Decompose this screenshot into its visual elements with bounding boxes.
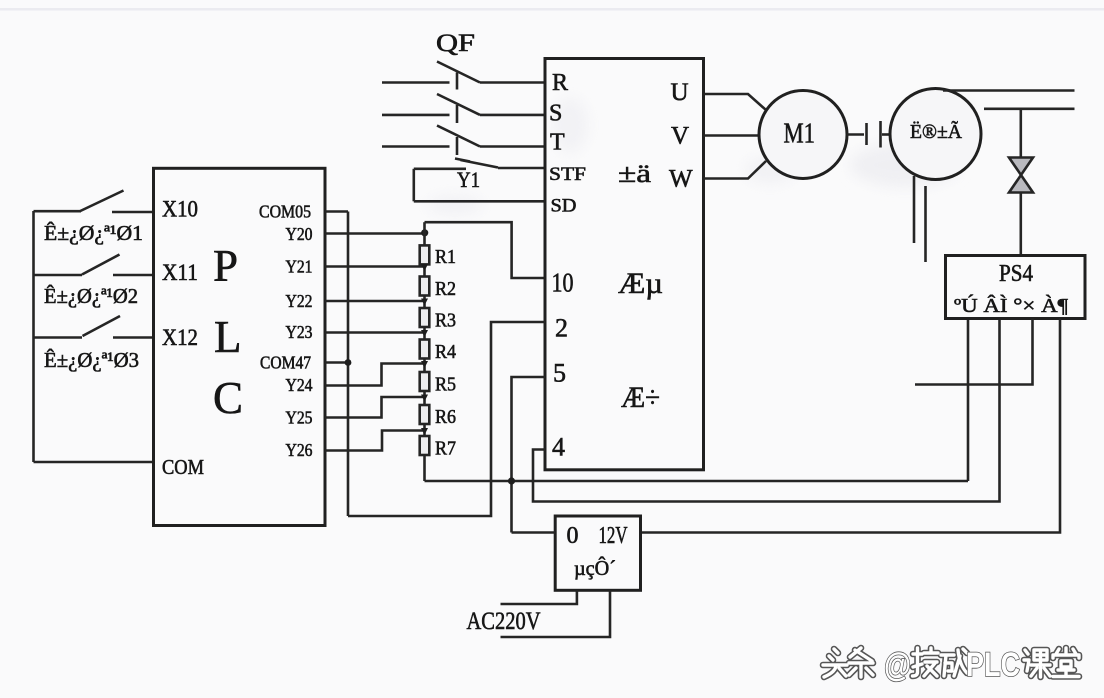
switch S1 left wire: [34, 210, 82, 213]
svg-text:COM: COM: [162, 455, 204, 479]
svg-text:L: L: [214, 312, 242, 362]
Y1 loop top wire: [414, 168, 466, 171]
pipe upper: [943, 89, 1075, 92]
QF link tick T: [456, 137, 459, 155]
svg-text:S: S: [549, 101, 562, 127]
power supply box: [555, 516, 640, 590]
svg-text:X11: X11: [162, 260, 198, 285]
switch S2 blade: [82, 255, 120, 275]
svg-text:Ê±¿Ø¿ª¹Ø3: Ê±¿Ø¿ª¹Ø3: [44, 348, 139, 372]
wire COM05 out: [325, 210, 348, 213]
svg-text:X10: X10: [162, 197, 198, 222]
wm char tang: [1053, 648, 1079, 677]
svg-text:12V: 12V: [599, 523, 628, 549]
wire Y25 step: [325, 397, 425, 418]
PS4 wire 4 to 12V: [641, 319, 1061, 533]
coupling right stub: [882, 133, 891, 136]
svg-text:Y22: Y22: [286, 291, 313, 311]
svg-text:10: 10: [552, 268, 574, 298]
svg-text:Y26: Y26: [286, 440, 313, 460]
svg-text:R6: R6: [435, 406, 456, 428]
wm char cheng: [941, 649, 967, 676]
resistor R6: [420, 405, 430, 424]
switch S3 right wire to X12: [113, 336, 154, 339]
svg-text:±ä: ±ä: [618, 159, 652, 188]
coupling left stub: [847, 133, 864, 136]
pipe drop to valve: [1019, 109, 1022, 158]
wire Y24 step: [325, 364, 425, 386]
wire 0 terminal: [512, 531, 556, 534]
svg-text:COM05: COM05: [259, 202, 311, 222]
svg-text:Æ÷: Æ÷: [621, 381, 660, 414]
svg-text:PLC: PLC: [966, 646, 1020, 684]
wire Y26 step: [325, 431, 425, 451]
node R2/R3: [421, 299, 428, 306]
svg-text:Y25: Y25: [286, 408, 313, 428]
wire chain top to terminal 10: [425, 222, 546, 278]
switch S1 blade: [80, 191, 123, 212]
Y1 fixed contact tick: [455, 159, 470, 162]
wm char tou: [823, 649, 847, 677]
valve lower triangle: [1009, 175, 1033, 193]
svg-text:@: @: [884, 646, 911, 683]
resistor chain top segment: [423, 222, 426, 245]
QF pole S left wire: [382, 114, 450, 117]
valve upper triangle: [1009, 158, 1033, 176]
wire Y22: [325, 300, 425, 303]
wire terminal 2 run: [348, 322, 545, 516]
QF pole T left wire: [382, 145, 450, 148]
svg-text:P: P: [213, 241, 238, 291]
faint scan line at top: [0, 8, 1104, 11]
coupling bar 1: [865, 123, 868, 145]
inverter box U2: [545, 59, 704, 470]
node R1/R2: [421, 264, 428, 271]
wire COM05/COM47 vertical run: [347, 212, 350, 517]
svg-text:µçÔ´: µçÔ´: [574, 556, 616, 580]
pipe valve to PS4: [1019, 193, 1022, 256]
wire Y20 to resistor chain: [325, 232, 425, 235]
svg-text:R: R: [552, 70, 568, 96]
pump inlet stub 2: [924, 186, 927, 262]
wire Y23: [325, 331, 425, 334]
bottom bus wire A: [425, 480, 969, 483]
svg-text:C: C: [213, 373, 243, 423]
svg-text:V: V: [671, 123, 689, 150]
svg-text:Y1: Y1: [457, 167, 480, 192]
resistor R7: [420, 436, 430, 455]
wire Y21: [325, 265, 425, 268]
junction Y20 node: [421, 229, 428, 236]
switch S1 right wire to X10: [112, 211, 154, 214]
svg-text:M1: M1: [784, 118, 816, 150]
resistor R4: [420, 340, 430, 359]
resistor R1: [420, 245, 430, 264]
wire PS4 to bus A: [967, 319, 970, 482]
wire terminal 5 run: [512, 377, 546, 533]
resistor R5: [420, 372, 430, 391]
QF pole S right wire: [480, 114, 545, 117]
svg-text:T: T: [550, 130, 565, 156]
svg-text:COM47: COM47: [260, 353, 311, 373]
motor M1 circle: [759, 91, 847, 179]
PS4 box: [946, 256, 1086, 319]
resistor R2: [420, 277, 430, 296]
switch S3 left wire: [34, 336, 83, 339]
svg-text:SD: SD: [551, 196, 577, 217]
wire V to motor: [704, 134, 760, 137]
PLC box U1: [154, 168, 326, 525]
svg-text:R1: R1: [435, 246, 456, 268]
pump circle: [890, 89, 981, 180]
svg-text:Æµ: Æµ: [618, 267, 663, 300]
svg-text:R2: R2: [435, 278, 456, 300]
pipe lower: [984, 108, 1075, 111]
wire W to motor: [704, 161, 767, 179]
Y1 contact STF wire: [498, 167, 545, 170]
left common bus wire: [32, 211, 35, 462]
QF pole T blade: [437, 126, 480, 147]
switch S3 blade: [83, 316, 121, 336]
QF pole S blade: [437, 94, 480, 115]
svg-text:ºÚ ÂÌ °× À¶: ºÚ ÂÌ °× À¶: [954, 293, 1068, 317]
Y1 contact blade: [461, 160, 499, 168]
node R6/R7: [421, 428, 428, 435]
QF link tick S: [456, 105, 459, 123]
COM wire to PLC: [34, 461, 154, 464]
QF pole R right wire: [480, 81, 545, 84]
wm char ji: [913, 648, 939, 676]
svg-text:4: 4: [552, 433, 565, 462]
switch S2 right wire to X11: [113, 274, 154, 277]
QF pole R blade: [437, 62, 480, 83]
AC wire 1: [501, 590, 577, 604]
svg-text:Y24: Y24: [286, 375, 313, 395]
node R5/R6: [421, 395, 428, 402]
coupling bar 2: [879, 121, 882, 148]
junction bus A: [508, 477, 515, 484]
svg-text:PS4: PS4: [999, 261, 1033, 287]
svg-text:Y21: Y21: [286, 257, 313, 277]
QF pole R left wire: [382, 81, 450, 84]
svg-text:AC220V: AC220V: [467, 608, 541, 635]
pump inlet stub 1: [913, 176, 916, 243]
node R3/R4: [421, 330, 428, 337]
svg-text:R5: R5: [435, 374, 456, 396]
wire U to motor: [704, 94, 767, 110]
svg-text:R3: R3: [435, 310, 456, 332]
svg-text:R7: R7: [435, 438, 456, 460]
svg-text:QF: QF: [436, 30, 475, 57]
svg-text:STF: STF: [549, 164, 586, 185]
PS4 wire 3 run (open end): [915, 319, 1033, 385]
watermark: [823, 648, 1079, 677]
wm char tiao: [849, 648, 873, 677]
junction COM47: [345, 359, 352, 366]
resistor R3: [420, 308, 430, 327]
svg-text:Ê±¿Ø¿ª¹Ø1: Ê±¿Ø¿ª¹Ø1: [44, 221, 143, 245]
QF link tick R: [456, 73, 459, 90]
wire terminal 4 run: [533, 319, 1000, 502]
svg-text:Y23: Y23: [286, 322, 313, 342]
SD wire: [414, 200, 545, 203]
svg-text:W: W: [669, 166, 693, 193]
QF pole T right wire: [480, 145, 545, 148]
svg-text:X12: X12: [162, 325, 198, 350]
svg-text:0: 0: [567, 523, 579, 549]
svg-text:U: U: [671, 79, 689, 106]
svg-text:Y20: Y20: [286, 224, 313, 244]
scan smudge patches: [427, 96, 970, 215]
switch S2 left wire: [34, 274, 83, 277]
AC wire 2: [501, 590, 611, 637]
svg-text:R4: R4: [435, 341, 456, 363]
Y1 loop left side: [412, 169, 415, 202]
svg-text:2: 2: [555, 314, 568, 343]
svg-text:Ë®±Ã: Ë®±Ã: [910, 119, 963, 143]
node R4/R5: [421, 361, 428, 368]
svg-text:Ê±¿Ø¿ª¹Ø2: Ê±¿Ø¿ª¹Ø2: [44, 284, 138, 308]
svg-text:5: 5: [553, 359, 566, 388]
wire COM47 out: [325, 361, 348, 364]
wm char ke: [1024, 650, 1050, 677]
